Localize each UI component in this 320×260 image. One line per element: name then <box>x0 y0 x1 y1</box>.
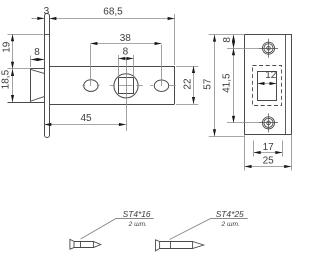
svg-text:8: 8 <box>34 47 40 58</box>
svg-text:17: 17 <box>263 142 275 153</box>
svg-text:68,5: 68,5 <box>103 7 123 18</box>
svg-text:18,5: 18,5 <box>1 69 12 89</box>
svg-text:ST4*25: ST4*25 <box>216 209 244 219</box>
svg-text:2 шт.: 2 шт. <box>128 221 147 228</box>
svg-text:22: 22 <box>183 78 194 90</box>
svg-text:8: 8 <box>123 47 129 58</box>
svg-text:38: 38 <box>120 33 132 44</box>
svg-text:12: 12 <box>265 70 277 81</box>
svg-text:3: 3 <box>44 6 50 17</box>
svg-text:19: 19 <box>1 41 12 53</box>
svg-text:45: 45 <box>80 113 92 124</box>
svg-text:57: 57 <box>202 78 213 90</box>
svg-text:8: 8 <box>222 37 233 43</box>
svg-text:ST4*16: ST4*16 <box>123 209 151 219</box>
svg-text:25: 25 <box>263 156 275 167</box>
svg-text:2 шт.: 2 шт. <box>220 221 239 228</box>
svg-text:41,5: 41,5 <box>222 73 233 93</box>
